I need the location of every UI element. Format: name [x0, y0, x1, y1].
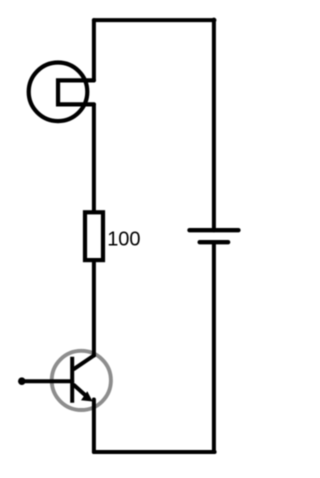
svg-text:100: 100 [107, 229, 140, 251]
